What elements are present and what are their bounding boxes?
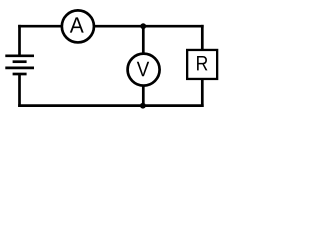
resistor R: rectangle body: [187, 50, 217, 79]
wire: right vertical through resistor: [201, 25, 204, 107]
wire: bottom rail: [18, 104, 204, 107]
resistor R: label R: [197, 56, 207, 70]
battery B1: short plate (bottom, negative): [13, 73, 27, 76]
battery B1: long plate (positive): [5, 67, 34, 70]
wire: left vertical, battery to bottom rail: [18, 74, 21, 107]
node: bottom junction dot: [140, 103, 146, 109]
voltmeter V1: circle body: [128, 54, 160, 86]
ammeter A1: circle body: [62, 10, 94, 42]
battery B1: short plate (negative): [13, 60, 27, 63]
wire: top rail: [18, 25, 204, 28]
node: top junction dot: [140, 23, 146, 29]
voltmeter V1: label V: [137, 62, 149, 76]
ammeter A1: label A: [70, 17, 84, 32]
battery B1: long plate (top, positive): [5, 54, 34, 57]
wire: left vertical, top rail to battery: [18, 25, 21, 56]
wire: voltmeter branch vertical: [142, 25, 145, 107]
